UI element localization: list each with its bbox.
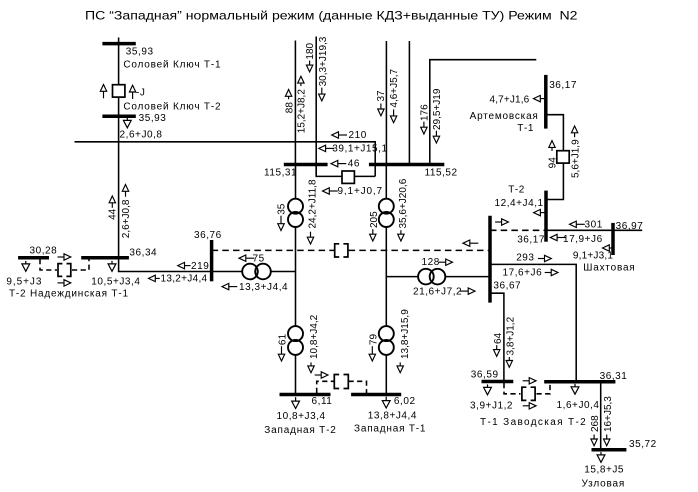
svg-text:13,3+J4,4: 13,3+J4,4: [239, 282, 288, 293]
breaker SQ4 dashed on long tie: [335, 244, 348, 257]
bus 36,34 Надеждинская Т-1: [81, 256, 129, 260]
bus 30,28 Надеждинская Т-2: [18, 256, 49, 260]
svg-text:6,11: 6,11: [312, 396, 333, 407]
flow arrow 4,7+J1,6 into bus: [534, 95, 546, 101]
label 35,72: [629, 439, 657, 450]
label 36,17 Артемовская: [549, 80, 577, 91]
load arrow below Западная Т-1: [382, 397, 390, 408]
svg-text:ПС “Западная” нормальный режим: ПС “Западная” нормальный режим (данные К…: [85, 8, 578, 22]
flow arrow right 17,6+J6: [545, 269, 558, 275]
svg-text:36,76: 36,76: [194, 230, 222, 241]
label 46: [348, 159, 360, 170]
label 9,1+J0,7: [338, 186, 383, 197]
svg-text:6,02: 6,02: [394, 396, 416, 407]
svg-text:-J: -J: [136, 87, 145, 98]
svg-text:176: 176: [419, 104, 430, 121]
svg-text:36,34: 36,34: [129, 248, 157, 259]
label Шахтовая: [583, 263, 635, 274]
flow label 10,8+J4,2 down arrow: [308, 314, 320, 372]
label 21,6+J7,2: [413, 286, 462, 297]
label Соловей Ключ Т-2: [123, 102, 221, 113]
arrow right below SQ7: [58, 280, 71, 286]
svg-text:88: 88: [284, 102, 295, 114]
arrow right above SQ6: [315, 372, 328, 378]
label 13,2+J4,4: [161, 274, 208, 285]
bus 35,72 Узловая: [592, 448, 627, 452]
label 3,9+J1,2: [470, 400, 513, 411]
svg-text:17,6+J6: 17,6+J6: [503, 268, 543, 279]
bus Западная Т-2 (6,11): [280, 393, 331, 397]
flow label 16+J5,3 down arrow: [603, 396, 614, 446]
flow arrow right 128: [439, 259, 453, 265]
svg-text:293: 293: [516, 253, 534, 264]
flow label 4,6+J5,7 down arrow: [389, 69, 400, 123]
bus 115,31: [284, 163, 328, 167]
svg-text:9,5+J3: 9,5+J3: [6, 277, 42, 288]
bus 115,52: [369, 163, 444, 167]
svg-text:210: 210: [349, 130, 367, 141]
arrow right below SQ5: [523, 403, 536, 409]
svg-text:219: 219: [191, 261, 209, 272]
load arrow below 36,59: [484, 384, 492, 394]
label 36,97: [616, 221, 644, 232]
svg-text:36,31: 36,31: [600, 371, 628, 382]
label 35,93 (Соловей Ключ Т-2): [139, 113, 167, 124]
flow arrow left near 36,67 on dashed tie: [463, 240, 478, 246]
wire line-2 (180/30,3+J19,3) x=316.2: [315, 37, 317, 177]
label 10,5+J3,4: [91, 277, 140, 288]
svg-text:13,2+J4,4: 13,2+J4,4: [161, 274, 208, 285]
label 6,11: [312, 396, 333, 407]
flow arrow 9,1+J0,7: [323, 188, 338, 194]
title text: [85, 8, 578, 22]
load arrow below 36,34: [108, 261, 116, 271]
label 6,02: [394, 396, 416, 407]
svg-text:13,8+J4,4: 13,8+J4,4: [368, 410, 417, 421]
flow label 180 down arrow: [305, 42, 316, 71]
svg-text:Т-2: Т-2: [508, 185, 525, 196]
flow label 94 up arrow: [548, 141, 559, 169]
wire Артемовская branch with 94 breaker: [546, 115, 564, 200]
svg-text:10,8+J3,4: 10,8+J3,4: [277, 411, 326, 422]
svg-text:35,72: 35,72: [629, 439, 657, 450]
label 115,31: [264, 167, 297, 178]
wire 115,52 feeder down to Западная Т-1: [385, 165, 387, 395]
wire line-3 (37/4,6+J5,7) x=386.4: [385, 41, 387, 165]
label Т-1 Артемовская: [517, 123, 534, 134]
svg-text:Т-1: Т-1: [517, 123, 534, 134]
breaker SQ3 (94): [557, 151, 569, 163]
flow arrow 75: [239, 255, 254, 261]
svg-text:35: 35: [276, 203, 287, 215]
label 75: [253, 253, 265, 264]
flow arrow right 21,6+J7,2: [460, 288, 475, 294]
load arrow below 35,72: [597, 452, 605, 462]
svg-text:36,97: 36,97: [616, 221, 644, 232]
svg-text:2,6+J0,8: 2,6+J0,8: [120, 130, 163, 141]
svg-text:10,8+J4,2: 10,8+J4,2: [309, 314, 320, 359]
svg-text:4,7+J1,6: 4,7+J1,6: [490, 95, 530, 106]
svg-text:4,6+J5,7: 4,6+J5,7: [389, 69, 400, 108]
breaker SQ6 Западная tie: [334, 375, 348, 389]
svg-text:Т-1 Заводская Т-2: Т-1 Заводская Т-2: [480, 417, 587, 428]
flow label 24,2+J11,8 down arrow: [307, 179, 318, 244]
svg-text:36,17: 36,17: [517, 235, 545, 246]
bus 36,59 Заводская Т-1: [482, 380, 514, 384]
label 210: [349, 130, 367, 141]
flow label 44 with up arrow: [108, 196, 119, 220]
label 9,5+J3: [6, 277, 42, 288]
label 301: [585, 220, 603, 231]
dashed tie Заводская: [504, 383, 550, 394]
flow label 176 down arrow: [419, 104, 430, 134]
label Соловей Ключ Т-1: [123, 59, 221, 70]
wire Шахтовая line: [546, 229, 642, 231]
flow label 13,8+J15,9 down arrow: [397, 309, 411, 373]
svg-text:3,9+J1,2: 3,9+J1,2: [470, 400, 513, 411]
label 36,76: [194, 230, 222, 241]
svg-text:Узловая: Узловая: [582, 478, 626, 489]
svg-text:79: 79: [368, 334, 379, 346]
svg-text:Соловей Ключ Т-2: Соловей Ключ Т-2: [123, 102, 221, 113]
svg-text:2,6+J0,8: 2,6+J0,8: [121, 199, 132, 238]
svg-text:1,6+J0,4: 1,6+J0,4: [557, 400, 600, 411]
transformer T6 (128/21,6+J7,2): [418, 269, 445, 285]
label 12,4+J4,1: [495, 198, 544, 209]
flow label 30,3+J19,3 down arrow: [318, 36, 329, 101]
svg-text:115,52: 115,52: [425, 168, 458, 179]
label 17,9+J6: [563, 234, 603, 245]
wire 36,76 to T3 to feeder: [212, 271, 296, 273]
transformer T5 (79/13,8+J15,9): [379, 326, 394, 355]
bus Соловей Ключ Т-1 (35,93): [102, 42, 135, 46]
wire bus-tie loop bottom: [316, 165, 375, 177]
bus 36,31 Заводская Т-2: [544, 380, 615, 384]
bus 36,97 vertical: [611, 223, 615, 255]
bus 36,17 (Шахтовая line): [544, 191, 548, 242]
label 9,1+J3,1: [573, 251, 613, 262]
label 293: [516, 253, 534, 264]
flow arrow 17,9+J6: [550, 234, 565, 240]
svg-text:5,6+J1,9: 5,6+J1,9: [570, 139, 581, 178]
label Узловая: [582, 478, 626, 489]
flow label 3,8+J1,2 down arrow: [506, 316, 517, 367]
svg-text:21,6+J7,2: 21,6+J7,2: [413, 286, 462, 297]
svg-text:205: 205: [369, 211, 380, 228]
svg-text:46: 46: [348, 159, 360, 170]
svg-text:Западная Т-2: Западная Т-2: [264, 425, 336, 436]
svg-text:9,1+J3,1: 9,1+J3,1: [573, 251, 613, 262]
wire line-4 x=409.4: [408, 41, 410, 165]
svg-text:94: 94: [548, 157, 559, 169]
svg-text:128: 128: [422, 257, 440, 268]
label 13,3+J4,4: [239, 282, 288, 293]
flow arrow 301: [570, 221, 585, 227]
bus Артемовская Т-1 (36,17): [544, 75, 548, 129]
svg-text:Шахтовая: Шахтовая: [583, 263, 635, 274]
wire 115,31 feeder down to Западная Т-2: [295, 165, 297, 395]
breaker SQ7 Надеждинская tie: [58, 264, 71, 277]
label 4,7+J1,6: [490, 95, 530, 106]
arrow right above SQ5: [523, 378, 536, 384]
transformer T2 (205/35,6+J20,6): [379, 199, 394, 227]
flow label 61 down arrow: [278, 334, 289, 361]
svg-text:30,3+J19,3: 30,3+J19,3: [318, 36, 329, 86]
label 39,1+J15,1: [332, 144, 387, 155]
svg-text:115,31: 115,31: [264, 167, 297, 178]
arrow up right of SQ1 (-J): [129, 85, 135, 99]
dashed tie 36,76 to 36,67: [212, 249, 490, 251]
wire 293 line 36,67 to 36,31: [490, 264, 576, 381]
label 128: [422, 257, 440, 268]
dashed tie Западная Т-2/Т-1: [317, 381, 367, 393]
svg-text:37: 37: [376, 90, 387, 102]
flow label 5,6+J1,9 up arrow: [570, 126, 581, 178]
flow arrow 46 on bus tie: [331, 160, 346, 166]
svg-text:17,9+J6: 17,9+J6: [563, 234, 603, 245]
label 17,6+J6: [503, 268, 543, 279]
bus Соловей Ключ Т-2 (35,93): [102, 114, 135, 118]
svg-text:Т-2 Надеждинская Т-1: Т-2 Надеждинская Т-1: [9, 289, 129, 300]
transformer T4 (61/10,8+J4,2): [288, 326, 303, 355]
flow label 35,6+J20,6 down arrow: [398, 178, 409, 241]
flow label 205 down arrow: [369, 211, 380, 241]
svg-text:301: 301: [585, 220, 603, 231]
label 15,8+J5: [584, 465, 624, 476]
flow arrow 39,1+J15,1: [319, 145, 334, 151]
svg-text:29,5+J19: 29,5+J19: [432, 88, 443, 130]
flow label 35 down arrow: [276, 203, 287, 230]
svg-text:36,67: 36,67: [493, 281, 521, 292]
svg-text:15,2+J8,2: 15,2+J8,2: [297, 89, 308, 134]
svg-text:36,17: 36,17: [549, 80, 577, 91]
svg-text:35,93: 35,93: [139, 113, 167, 124]
wire 64 branch 36,67 to 36,59: [490, 293, 504, 381]
load arrow below 30,28: [22, 261, 30, 271]
dashed tie 36,67 to 36,17: [490, 229, 545, 231]
flow arrow 13,2+J4,4: [149, 275, 160, 281]
breaker SQ2 bus-tie 115kV: [342, 171, 354, 183]
transformer T1 (35/24,2+J11,8): [288, 199, 303, 227]
label Т-2 Артемовская: [508, 185, 525, 196]
transformer T3 (75/13,3+J4,4): [242, 264, 271, 280]
flow arrow 13,3+J4,4: [222, 283, 237, 289]
svg-text:10,5+J3,4: 10,5+J3,4: [91, 277, 140, 288]
wire 268 line 36,31 to Узловая: [600, 382, 602, 450]
label 10,8+J3,4: [277, 411, 326, 422]
svg-text:35,6+J20,6: 35,6+J20,6: [398, 178, 409, 228]
svg-text:3,8+J1,2: 3,8+J1,2: [506, 316, 517, 355]
svg-text:36,59: 36,59: [471, 369, 499, 380]
svg-text:24,2+J11,8: 24,2+J11,8: [307, 179, 318, 228]
label 1,6+J0,4: [557, 400, 600, 411]
svg-text:16+J5,3: 16+J5,3: [603, 396, 614, 432]
flow arrow 210 on 115kV tie: [332, 132, 347, 138]
label Западная Т-2: [264, 425, 336, 436]
dashed tie Надеждинская: [40, 259, 89, 270]
svg-text:Артемовская: Артемовская: [470, 111, 539, 122]
flow label 268 down arrow: [590, 415, 601, 446]
bus Западная Т-1 (6,02): [351, 393, 401, 397]
wire long 115kV tie line: [75, 142, 376, 177]
label 35,93 (Соловей Ключ Т-1): [126, 46, 154, 57]
label 115,52: [425, 168, 458, 179]
svg-text:39,1+J15,1: 39,1+J15,1: [332, 144, 387, 155]
svg-text:Соловей Ключ Т-1: Соловей Ключ Т-1: [123, 59, 221, 70]
breaker SQ1 on Соловей feeder: [113, 85, 125, 97]
svg-text:13,8+J15,9: 13,8+J15,9: [400, 309, 411, 359]
flow arrow 12,4+J4,1 into bus: [534, 209, 547, 215]
bus 36,76 vertical: [210, 240, 214, 281]
breaker SQ5 Заводская tie: [522, 387, 535, 400]
label 2,6+J0,8 (load): [120, 130, 163, 141]
svg-text:64: 64: [493, 332, 504, 344]
wire Соловей Ключ vertical feeder: [118, 38, 120, 258]
label Т-2 Надеждинская Т-1: [9, 289, 129, 300]
label 36,67: [493, 281, 521, 292]
flow label 88 up arrow: [284, 90, 295, 114]
wire T6 branch 386 to 36,67: [386, 276, 490, 278]
svg-text:75: 75: [253, 253, 265, 264]
label Западная Т-1: [354, 424, 426, 435]
bus 36,67 vertical: [488, 216, 492, 303]
load arrow below 36,31: [571, 384, 579, 394]
svg-text:35,93: 35,93: [126, 46, 154, 57]
svg-text:Западная Т-1: Западная Т-1: [354, 424, 426, 435]
label Т-1 Заводская Т-2: [480, 417, 587, 428]
flow label 15,2+J8,2 up arrow: [297, 76, 308, 133]
svg-text:268: 268: [590, 415, 601, 432]
svg-text:180: 180: [305, 42, 316, 59]
arrow right above SQ7: [58, 254, 71, 260]
flow arrow 9,1+J3,1 из 36,97: [603, 245, 615, 251]
label 13,8+J4,4: [368, 410, 417, 421]
label 36,31: [600, 371, 628, 382]
svg-text:61: 61: [278, 334, 289, 346]
wire line-1 (88/15,2+J8,2) x=295.4: [294, 41, 296, 165]
wire 36,34 to 36,76 link: [119, 258, 212, 272]
label Артемовская: [470, 111, 539, 122]
flow label 2,6+J0,8 with up arrow: [121, 185, 132, 239]
flow arrow right 293: [538, 255, 551, 261]
flow arrow 219: [178, 262, 191, 268]
label 36,34: [129, 248, 157, 259]
label 219: [191, 261, 209, 272]
wire line-5 (176/29,5+J19) corner to stub: [430, 60, 537, 165]
label 36,59: [471, 369, 499, 380]
arrow up left of SQ1: [100, 85, 106, 99]
flow label 37 down arrow: [376, 90, 387, 116]
label 30,28: [30, 246, 58, 257]
arrow right above dashed 36,67-36,17: [495, 219, 508, 225]
label 36,17 bus: [517, 235, 545, 246]
label -J: [136, 87, 145, 98]
flow label 29,5+J19 down arrow: [432, 88, 443, 143]
svg-text:9,1+J0,7: 9,1+J0,7: [338, 186, 383, 197]
flow label 64 down arrow: [493, 332, 504, 356]
svg-text:15,8+J5: 15,8+J5: [584, 465, 624, 476]
flow label 79 down arrow: [368, 334, 379, 361]
svg-text:44: 44: [108, 208, 119, 220]
load arrow below Западная Т-2: [292, 397, 300, 408]
load arrow below Соловей Т-2 bus: [123, 117, 131, 127]
svg-text:12,4+J4,1: 12,4+J4,1: [495, 198, 544, 209]
svg-text:30,28: 30,28: [30, 246, 58, 257]
